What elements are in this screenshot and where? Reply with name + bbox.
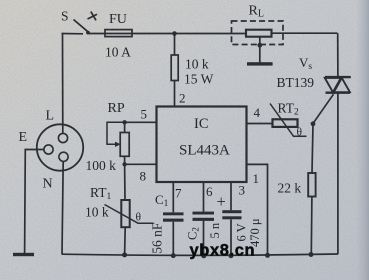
wire top rail left segment: [62, 33, 84, 35]
wire E pin to earth bar: [25, 150, 44, 254]
resistor 22k: [278, 124, 316, 255]
thermistor RT2: [270, 101, 307, 139]
svg-text:4: 4: [254, 105, 261, 120]
wire left column L to plug: [62, 34, 64, 134]
capacitor C3 470u 6V electrolytic: [217, 192, 263, 255]
svg-text:θ: θ: [136, 212, 142, 224]
node C1 bottom rail junction: [171, 253, 176, 258]
svg-text:100 k: 100 k: [86, 158, 117, 173]
svg-text:IC: IC: [194, 116, 209, 132]
node RT1 bottom rail junction: [122, 252, 127, 257]
svg-text:10 k: 10 k: [185, 57, 209, 72]
svg-text:10 k: 10 k: [85, 205, 109, 220]
svg-text:S: S: [61, 9, 69, 24]
wire right rail top: [337, 33, 339, 76]
svg-text:3: 3: [239, 183, 246, 198]
svg-text:15 W: 15 W: [184, 72, 214, 87]
svg-text:E: E: [19, 130, 28, 145]
fuse FU: [105, 12, 132, 60]
svg-text:5: 5: [141, 107, 148, 122]
load resistor RL in dashed box: [232, 4, 284, 45]
thermistor RT1 10k: [85, 164, 154, 254]
svg-text:SL443A: SL443A: [179, 143, 230, 159]
svg-text:2: 2: [179, 91, 186, 106]
heater element bar: [247, 62, 273, 65]
node 22k bottom rail junction: [309, 252, 314, 257]
potentiometer RP 100k: [86, 101, 130, 173]
wire RL to heater bar: [259, 37, 261, 63]
svg-text:8: 8: [140, 169, 147, 184]
wire pin 6: [203, 182, 205, 212]
node junction top rail: [172, 31, 177, 36]
node C2 bottom rail junction: [201, 253, 206, 258]
ground earth bar: [13, 253, 34, 256]
svg-text:FU: FU: [109, 12, 127, 27]
capacitor C2 5n: [186, 212, 223, 255]
svg-text:6: 6: [206, 184, 213, 199]
svg-text:N: N: [43, 177, 53, 192]
wire plug N down to bottom rail: [62, 161, 63, 254]
svg-text:5 n: 5 n: [208, 222, 222, 238]
capacitor C1 56nF: [150, 192, 184, 255]
node RT2 / gate / 22k junction: [311, 121, 316, 126]
svg-text:L: L: [46, 109, 55, 124]
wire pin 1 to bottom rail: [247, 164, 268, 254]
svg-text:6 V: 6 V: [235, 223, 249, 241]
svg-text:RP: RP: [108, 101, 125, 116]
wire triac gate: [313, 94, 333, 123]
svg-text:+: +: [217, 192, 226, 211]
IC U1 SL443A: [157, 107, 247, 183]
wire bottom rail: [62, 254, 338, 255]
wire top rail RL box to right corner: [272, 32, 338, 34]
wire pin 7: [172, 182, 174, 212]
triac Vs BT139: [325, 77, 351, 93]
svg-text:1: 1: [253, 171, 260, 186]
svg-text:θ: θ: [297, 127, 303, 139]
svg-text:22 k: 22 k: [278, 181, 302, 196]
wire pin 3: [230, 182, 232, 210]
node C3 bottom rail junction: [229, 253, 234, 258]
resistor 10k 15W: [171, 34, 213, 107]
node on dashed box bottom: [257, 43, 262, 48]
svg-text:10 A: 10 A: [105, 45, 131, 60]
svg-text:7: 7: [175, 186, 182, 201]
wire top rail fuse to RL box: [89, 33, 246, 35]
svg-text:ybx8.cn: ybx8.cn: [190, 242, 256, 260]
node pin1 bottom rail junction: [265, 253, 270, 258]
wire pin 5: [125, 121, 157, 123]
wire pin 4: [247, 123, 273, 125]
switch S: [74, 12, 98, 32]
svg-text:BT139: BT139: [277, 75, 315, 90]
wire pin 8: [125, 163, 157, 165]
plug socket L N E: [19, 109, 84, 192]
svg-text:56 nF: 56 nF: [150, 222, 165, 254]
wire right rail bottom: [337, 94, 339, 255]
